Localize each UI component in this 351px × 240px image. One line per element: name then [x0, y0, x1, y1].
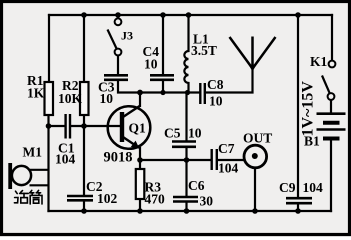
svg-text:C5: C5: [164, 126, 181, 141]
wire battery to ground rail: [330, 140, 332, 211]
wire J3 lower to C3: [117, 56, 119, 75]
svg-text:102: 102: [97, 191, 118, 206]
wire L1 top: [187, 15, 189, 51]
svg-text:10: 10: [144, 57, 158, 72]
svg-text:104: 104: [55, 152, 76, 167]
node mic/C1: [46, 123, 52, 129]
node C9 top: [295, 12, 301, 18]
capacitor C8 plates: [200, 83, 205, 104]
node C4 top: [160, 12, 166, 18]
resistor R2: [80, 82, 89, 115]
resistor R1: [45, 82, 54, 115]
wire OUT jack to ground: [254, 169, 256, 212]
svg-text:10: 10: [188, 126, 202, 141]
node C9 ground: [295, 208, 301, 214]
wire emitter down: [139, 148, 141, 169]
svg-text:C6: C6: [188, 178, 205, 193]
node junction dots: [46, 12, 301, 214]
node L1 bottom: [185, 90, 190, 95]
capacitor C1 plates: [66, 114, 70, 139]
inductor L1: [184, 51, 188, 83]
svg-text:1K: 1K: [27, 86, 45, 101]
wire base segment C1 to base: [71, 125, 120, 127]
node collector: [137, 90, 143, 96]
svg-text:C9: C9: [279, 180, 296, 195]
wire left column upper (R1 top): [48, 15, 50, 82]
wire C3 bottom corner to collector rail: [118, 81, 199, 93]
wire R2 top: [83, 15, 85, 82]
wire C9 column: [297, 15, 299, 197]
wire left column middle (R1 bottom to mic node): [47, 115, 49, 211]
svg-text:1V~15V: 1V~15V: [300, 81, 317, 137]
transistor Q1 emitter stroke with arrow: [123, 137, 137, 147]
svg-text:C7: C7: [218, 141, 235, 156]
microphone M1: [8, 163, 48, 189]
svg-text:9018: 9018: [104, 150, 133, 166]
transistor Q1 collector stroke: [123, 106, 140, 117]
node C2 ground: [81, 208, 87, 214]
capacitor C9 plates: [286, 198, 312, 203]
wire bottom ground rail: [49, 210, 332, 212]
capacitor C2 plates: [67, 196, 93, 200]
node OUT ground: [252, 208, 258, 214]
node L1 top: [186, 12, 192, 18]
svg-text:OUT: OUT: [243, 131, 272, 146]
wire C5 to emitter node: [185, 149, 187, 197]
node J3 top: [115, 12, 121, 18]
wire R2 bottom / C2 column: [83, 115, 85, 196]
wire K1 drop from rail: [331, 15, 333, 61]
wire L1 bottom: [187, 83, 189, 93]
wire C9 to ground: [297, 204, 299, 212]
OUT jack: [244, 145, 267, 168]
wire C4 column top: [162, 15, 164, 75]
wire base segment left of C1: [49, 125, 65, 127]
wire C7 to OUT jack: [219, 159, 245, 161]
wire emitter node to C7: [140, 159, 210, 161]
node C6 ground: [184, 208, 190, 214]
capacitor C5 plates: [172, 142, 196, 147]
node emitter: [137, 157, 143, 163]
svg-text:C8: C8: [207, 77, 224, 92]
node R2 top: [81, 12, 87, 18]
node base/R2: [81, 123, 87, 129]
svg-text:10: 10: [100, 91, 114, 106]
svg-text:3.5T: 3.5T: [191, 43, 217, 58]
capacitor C6 plates: [173, 197, 198, 202]
wire C4 column bottom: [162, 81, 164, 93]
wire K1 to battery: [330, 100, 332, 112]
wire collector up: [139, 93, 141, 107]
transistor Q1 base bar: [120, 112, 124, 142]
wire C5 column (collector rail down to C5): [185, 93, 187, 141]
capacitor C3 plates: [104, 75, 128, 80]
svg-text:30: 30: [200, 194, 214, 209]
svg-text:104: 104: [303, 180, 324, 195]
transistor Q1 circle: [108, 106, 151, 149]
wire C2 to ground: [83, 201, 85, 211]
capacitor C4 plates: [150, 75, 174, 80]
resistor R3: [136, 169, 145, 199]
wire R3 to ground: [139, 199, 141, 211]
switch K1: [322, 61, 335, 100]
svg-text:10K: 10K: [58, 91, 83, 106]
svg-text:104: 104: [218, 161, 239, 176]
svg-text:M1: M1: [23, 145, 43, 160]
switch J3: [108, 18, 122, 55]
wire top supply rail: [49, 14, 332, 16]
node R3 ground: [137, 208, 143, 214]
node C4 bottom: [160, 90, 165, 95]
label microphone 话筒 (drawn strokes): [14, 190, 42, 204]
wire C8 right to antenna: [206, 69, 253, 93]
wire C6 to ground: [185, 203, 187, 211]
antenna: [230, 37, 276, 70]
node C5/C7: [184, 157, 190, 163]
capacitor C7 plates: [212, 149, 217, 170]
svg-text:Q1: Q1: [129, 121, 147, 136]
battery B1: [317, 114, 346, 139]
svg-text:470: 470: [145, 192, 166, 207]
svg-text:10: 10: [209, 94, 223, 109]
svg-text:J3: J3: [121, 29, 133, 43]
svg-text:K1: K1: [310, 54, 328, 69]
